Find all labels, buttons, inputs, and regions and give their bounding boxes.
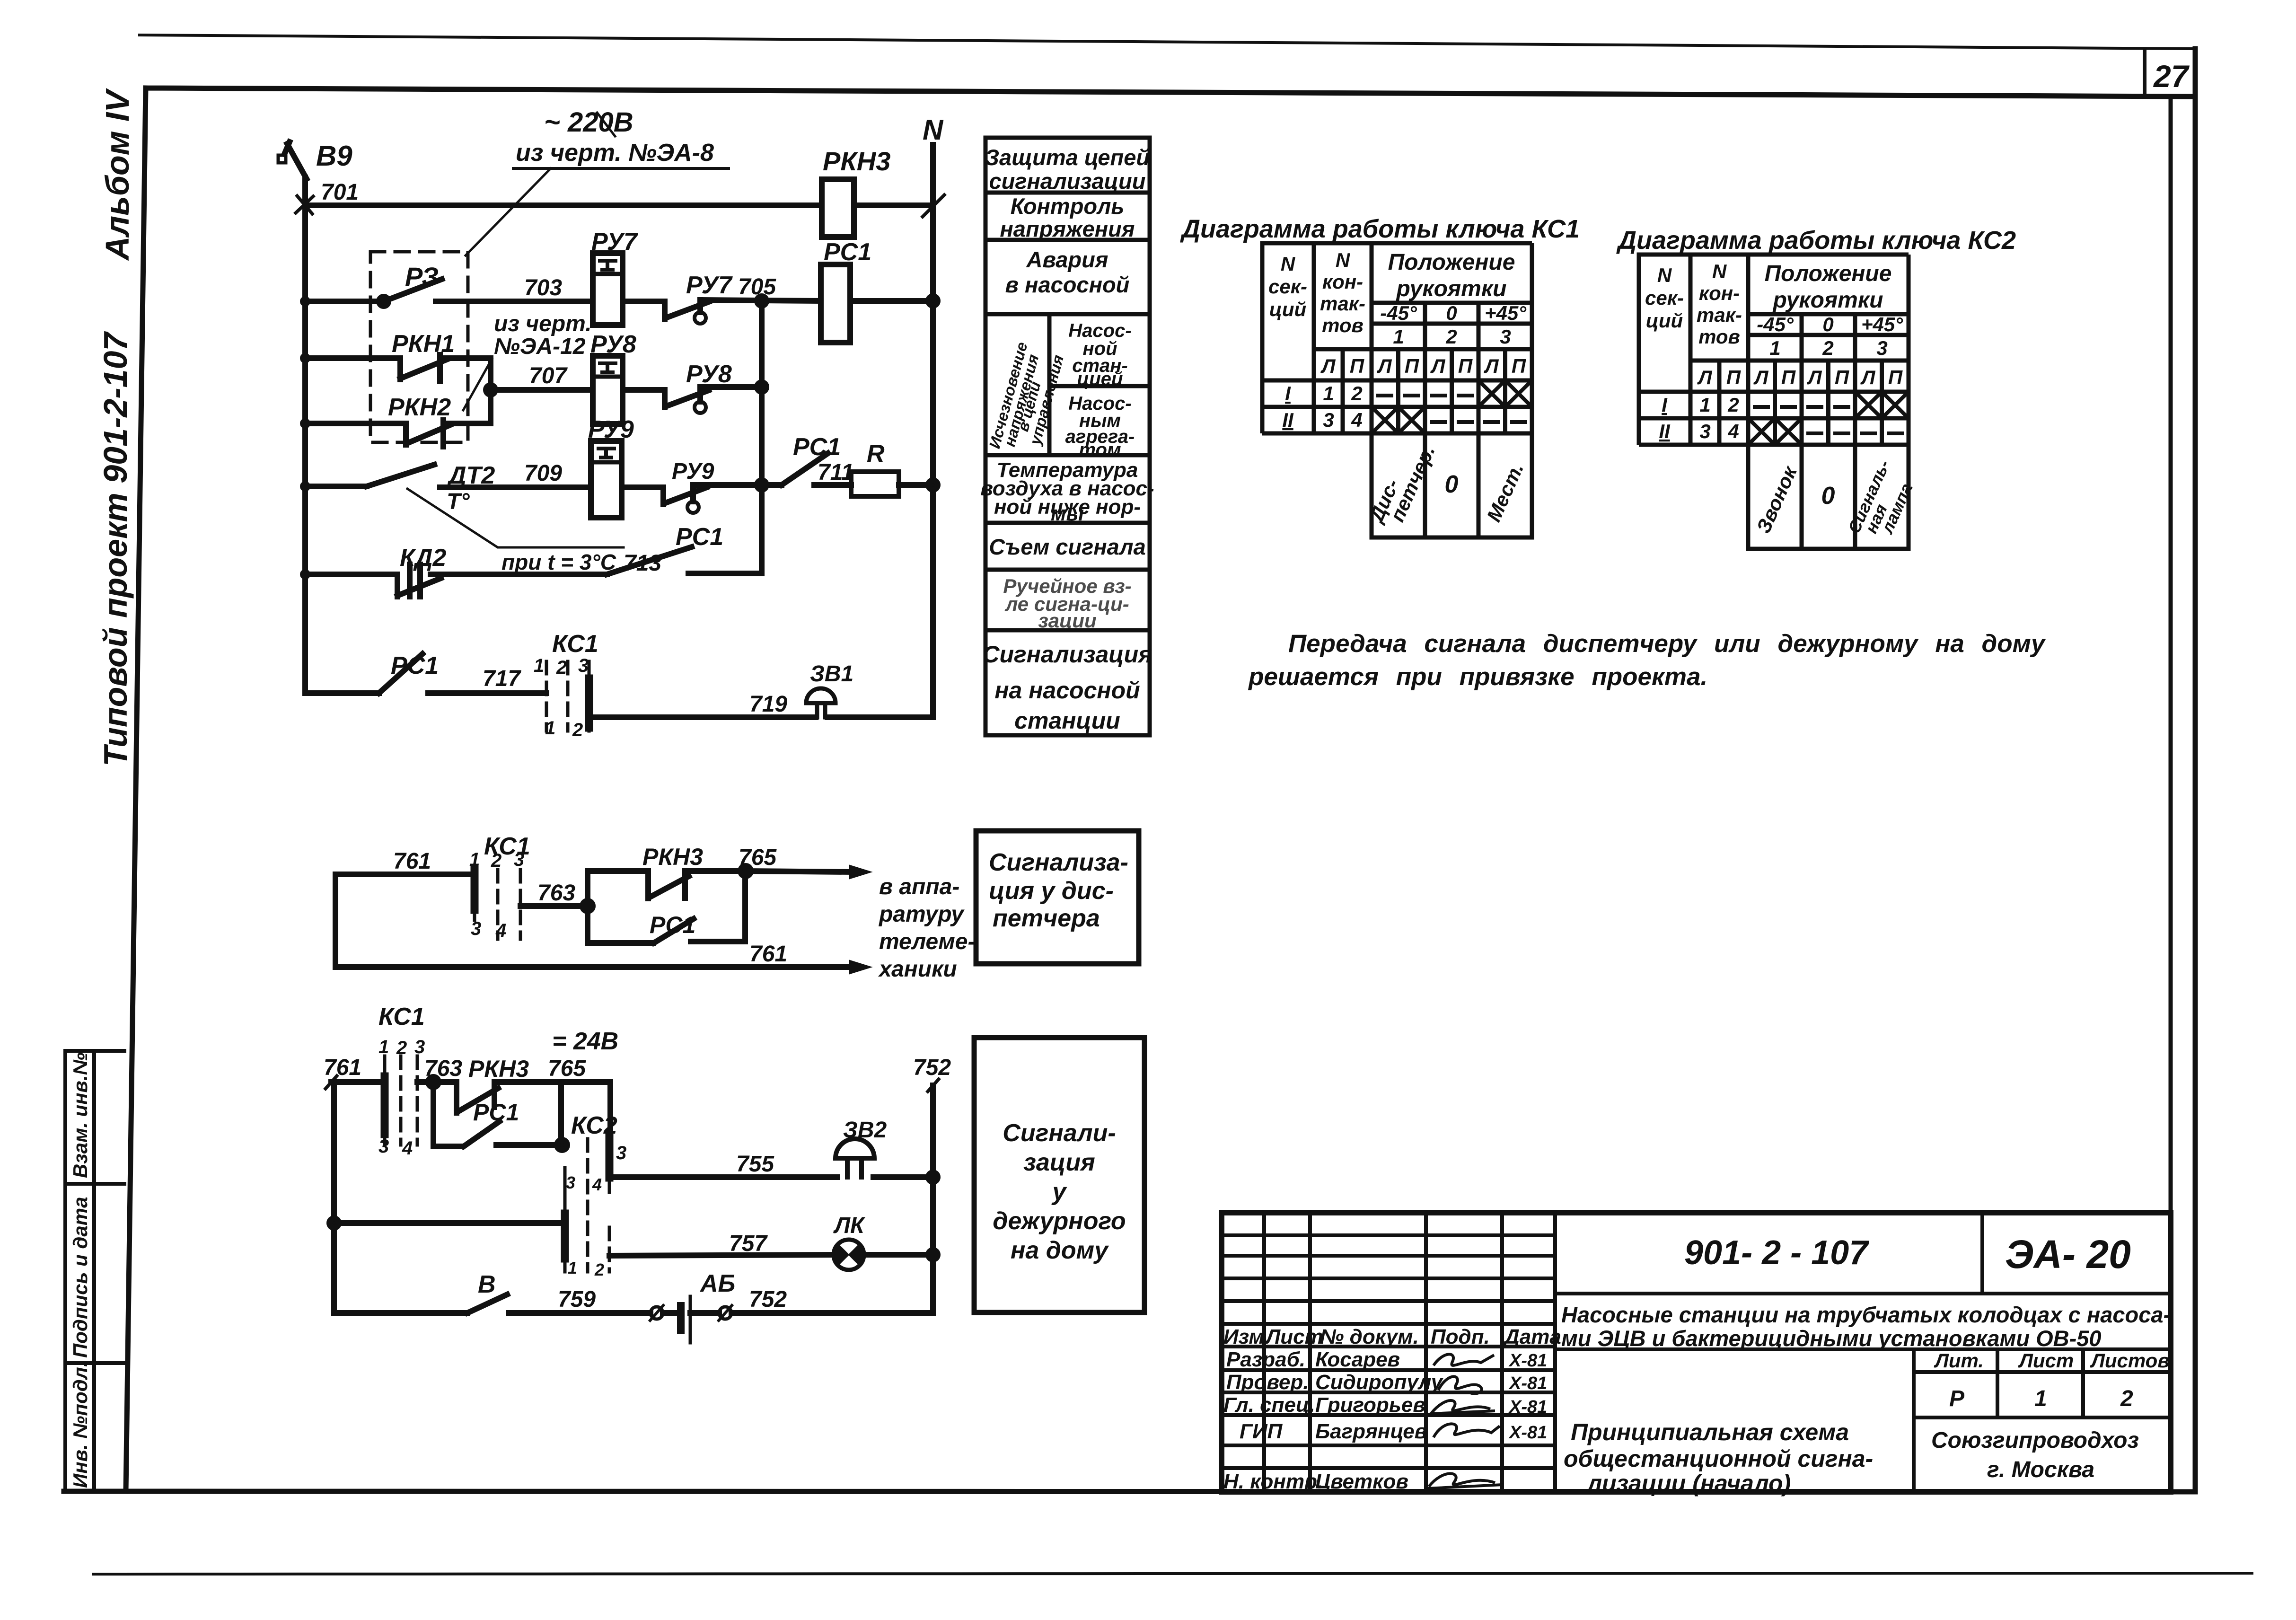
svg-text:Л: Л (1377, 355, 1392, 377)
box Температура воздуха (980, 458, 1154, 525)
svg-text:Х-81: Х-81 (1508, 1351, 1547, 1371)
svg-text:телеме-: телеме- (879, 929, 975, 954)
contact RS1 (NO) (588, 940, 653, 946)
svg-text:на насосной: на насосной (994, 677, 1140, 704)
svg-text:Т°: Т° (447, 489, 470, 514)
wire 765 with arrow (740, 866, 751, 876)
switch B9 (278, 155, 286, 163)
svg-text:Защита цепей: Защита цепей (985, 145, 1150, 170)
svg-text:752: 752 (913, 1055, 951, 1080)
wire 763 (417, 1079, 433, 1085)
table KS2 grid (1639, 255, 1909, 445)
svg-text:№ЭА-12: №ЭА-12 (494, 334, 586, 359)
svg-text:РС1: РС1 (473, 1099, 519, 1126)
svg-text:ратуру: ратуру (878, 902, 965, 927)
label v apparaturu telemehaniki (878, 874, 975, 982)
svg-text:решается при привязке проекта.: решается при привязке проекта. (1248, 663, 1707, 691)
terminal 761 slash (325, 1076, 337, 1089)
svg-text:N: N (1712, 260, 1727, 282)
left margin stamp strip (65, 1051, 124, 1491)
svg-text:3: 3 (471, 918, 481, 939)
header Polozhenie rukoyatki (1765, 261, 1892, 313)
svg-text:Н. контр.: Н. контр. (1223, 1470, 1323, 1493)
svg-text:3: 3 (566, 1173, 575, 1192)
row I marks (1376, 394, 1393, 397)
svg-text:ция у дис-: ция у дис- (989, 877, 1114, 905)
svg-text:ЭА- 20: ЭА- 20 (2005, 1232, 2131, 1277)
svg-text:= 24В: = 24В (552, 1028, 618, 1055)
contact RU9 (622, 484, 663, 490)
svg-text:при t = 3°С: при t = 3°С (501, 550, 616, 574)
lit/list/listov (1914, 1349, 2171, 1417)
wire 755 (609, 1174, 837, 1180)
svg-text:Авария: Авария (1026, 247, 1108, 272)
svg-text:Цветков: Цветков (1315, 1470, 1408, 1493)
svg-text:2: 2 (1445, 326, 1457, 348)
svg-text:П: П (1458, 355, 1473, 377)
svg-text:РКН1: РКН1 (392, 330, 455, 358)
wire 707 (491, 387, 593, 393)
svg-text:РКН2: РКН2 (388, 394, 451, 421)
box Signalizatsiya u dezhurnogo (974, 1038, 1144, 1312)
svg-text:Л: Л (1807, 366, 1822, 388)
svg-text:4: 4 (1727, 420, 1739, 442)
switch V (334, 1310, 467, 1316)
svg-text:761: 761 (324, 1055, 361, 1080)
svg-text:755: 755 (736, 1152, 774, 1177)
svg-text:Дата: Дата (1503, 1325, 1561, 1348)
svg-text:1: 1 (545, 718, 555, 739)
svg-text:Х-81: Х-81 (1508, 1397, 1547, 1417)
svg-text:Подпись и дата: Подпись и дата (69, 1197, 91, 1358)
box Signalizatsiya u dispetchera (976, 831, 1139, 964)
svg-text:так-: так- (1697, 304, 1742, 326)
svg-text:2: 2 (594, 1260, 604, 1279)
row I marks (1753, 405, 1770, 409)
svg-text:РУ9: РУ9 (672, 459, 714, 484)
svg-text:709: 709 (524, 461, 562, 486)
svg-text:-45°: -45° (1757, 313, 1794, 335)
svg-text:РС1: РС1 (676, 523, 723, 551)
svg-text:4: 4 (1351, 409, 1362, 431)
svg-text:РУ7: РУ7 (686, 272, 733, 299)
contact RU7 (623, 299, 665, 304)
wire 705 (700, 300, 821, 301)
svg-text:РКН3: РКН3 (468, 1056, 529, 1082)
lit list listov (1934, 1349, 2170, 1372)
header Polozhenie rukoyatki (1388, 250, 1515, 301)
battery AB (663, 1310, 677, 1316)
wire 761 (331, 1079, 381, 1085)
svg-text:3: 3 (578, 655, 589, 676)
signatures (1427, 1354, 1503, 1488)
svg-text:кон-: кон- (1322, 271, 1363, 293)
svg-text:сигнализации: сигнализации (989, 168, 1146, 194)
box Насосным агрегатом (1065, 393, 1135, 460)
svg-text:719: 719 (749, 692, 787, 717)
svg-text:Разраб.: Разраб. (1226, 1348, 1305, 1371)
svg-text:Л: Л (1753, 366, 1769, 388)
svg-text:ЛК: ЛК (833, 1213, 866, 1238)
page number box (2143, 49, 2146, 96)
svg-text:ЗВ1: ЗВ1 (810, 661, 853, 687)
svg-text:3: 3 (414, 1037, 425, 1057)
svg-text:Взам. инв.№: Взам. инв.№ (69, 1052, 91, 1178)
svg-text:П: П (1781, 366, 1796, 388)
svg-text:Х-81: Х-81 (1508, 1423, 1547, 1443)
svg-text:сек-: сек- (1268, 275, 1307, 298)
svg-text:3: 3 (1876, 337, 1887, 359)
svg-text:1: 1 (1699, 394, 1710, 416)
svg-text:Контроль: Контроль (1011, 194, 1125, 219)
wire 761 top (335, 874, 471, 967)
N line crossing slash (923, 195, 944, 217)
wire 705 to N (850, 298, 933, 304)
svg-text:г. Москва: г. Москва (1987, 1457, 2094, 1482)
category boxes outline (985, 138, 1150, 735)
svg-text:2: 2 (572, 720, 583, 740)
svg-text:707: 707 (529, 363, 568, 388)
wire 759 (509, 1310, 651, 1316)
left bus wire (302, 177, 308, 693)
svg-text:тов: тов (1322, 314, 1364, 336)
central vertical (1912, 1417, 1916, 1492)
relay coil RS1 (821, 264, 850, 343)
svg-text:Передача сигнала диспетчеру ил: Передача сигнала диспетчеру или дежурном… (1288, 630, 2046, 658)
wire 711 row (693, 482, 782, 488)
svg-text:+45°: +45° (1485, 302, 1527, 324)
svg-text:2: 2 (556, 657, 567, 678)
svg-text:лизации (начало): лизации (начало) (1586, 1470, 1791, 1497)
svg-text:РС1: РС1 (793, 433, 841, 461)
contact RS1 (433, 1144, 462, 1149)
svg-text:0: 0 (1822, 313, 1833, 335)
svg-text:761: 761 (393, 849, 431, 874)
svg-text:N: N (923, 114, 944, 146)
svg-text:Диаграмма работы ключа КС1: Диаграмма работы ключа КС1 (1180, 215, 1580, 243)
parallel block RKN3/RS1 (585, 871, 590, 943)
svg-text:Альбом IV: Альбом IV (99, 88, 136, 261)
svg-text:из черт.: из черт. (494, 311, 592, 336)
svg-text:в аппа-: в аппа- (879, 874, 959, 899)
parallel block RKN3/RS1 (bottom) (431, 1082, 436, 1146)
svg-text:II: II (1282, 409, 1294, 431)
svg-text:так-: так- (1320, 292, 1365, 315)
N line (930, 145, 936, 717)
svg-text:зации: зации (1038, 609, 1096, 632)
svg-text:Л: Л (1320, 355, 1336, 377)
svg-text:4: 4 (495, 920, 506, 941)
svg-text:цией: цией (1077, 369, 1123, 389)
svg-text:4: 4 (592, 1175, 602, 1194)
leader to dashed box (466, 168, 551, 255)
svg-text:2: 2 (2120, 1386, 2133, 1411)
svg-text:759: 759 (558, 1287, 596, 1312)
svg-text:П: П (1512, 355, 1526, 377)
contact RKN3 (NC) (588, 871, 648, 898)
svg-text:РКН3: РКН3 (642, 844, 703, 870)
svg-text:станции: станции (1014, 707, 1120, 734)
svg-text:R: R (867, 440, 885, 467)
svg-text:-45°: -45° (1380, 302, 1417, 324)
svg-text:ций: ций (1269, 298, 1306, 320)
relay coil RU8 (593, 356, 623, 424)
contact RS1 (711) (782, 453, 828, 485)
svg-text:тов: тов (1698, 326, 1740, 348)
svg-text:Лист: Лист (2018, 1349, 2074, 1372)
svg-text:ЗВ2: ЗВ2 (843, 1118, 887, 1143)
bell ZV1 (806, 688, 836, 703)
svg-text:дежурного: дежурного (993, 1207, 1126, 1235)
svg-text:1: 1 (568, 1258, 577, 1277)
resistor R (851, 472, 899, 496)
svg-text:2: 2 (1727, 394, 1739, 416)
bottom cells (1364, 442, 1528, 527)
junction vertical (488, 358, 493, 423)
svg-text:рукоятки: рукоятки (1772, 288, 1883, 313)
right vertical 752 (930, 1085, 936, 1313)
svg-text:0: 0 (1446, 302, 1457, 324)
wire 757 (609, 1255, 834, 1256)
svg-text:~ 220В: ~ 220В (544, 107, 633, 138)
contact RS1 (713) (607, 547, 692, 574)
relay coil RKN3 (822, 179, 854, 237)
rotated text Исчезновение напряжения в цепи управления (985, 340, 1067, 450)
svg-text:761: 761 (749, 942, 787, 967)
svg-text:Сигнализация: Сигнализация (982, 641, 1152, 668)
leader pri t (407, 489, 624, 547)
svg-text:765: 765 (739, 845, 777, 870)
svg-text:765: 765 (548, 1056, 586, 1081)
svg-text:1: 1 (378, 1037, 389, 1057)
svg-text:зация: зация (1023, 1149, 1095, 1176)
svg-text:РУ7: РУ7 (591, 228, 638, 255)
svg-text:763: 763 (424, 1056, 462, 1081)
box Насосной станцией (1068, 320, 1131, 389)
svg-text:4: 4 (402, 1138, 413, 1159)
svg-text:Изм.: Изм. (1223, 1325, 1270, 1348)
svg-text:763: 763 (537, 880, 575, 906)
svg-text:у: у (1051, 1178, 1068, 1206)
svg-text:0: 0 (1821, 482, 1835, 510)
relay coil RU9 (591, 441, 622, 518)
svg-text:Сигнали-: Сигнали- (1003, 1119, 1116, 1147)
svg-text:Положение: Положение (1388, 250, 1515, 275)
header cells right part (1555, 1213, 2171, 1349)
svg-text:3: 3 (514, 849, 524, 870)
wire 703 (436, 299, 593, 304)
node X mark at 701 (296, 196, 313, 214)
svg-text:П: П (1888, 366, 1903, 388)
svg-text:на дому: на дому (1011, 1237, 1109, 1264)
svg-text:П: П (1835, 366, 1849, 388)
svg-text:КС1: КС1 (378, 1003, 425, 1030)
relay coil RU7 (593, 253, 623, 325)
svg-text:3: 3 (616, 1143, 626, 1163)
svg-text:КД2: КД2 (400, 544, 447, 572)
svg-text:N: N (1281, 253, 1296, 275)
wire 701 to N (854, 202, 933, 208)
svg-text:том: том (1079, 440, 1121, 460)
svg-text:Лит.: Лит. (1934, 1349, 1984, 1372)
svg-text:3: 3 (378, 1136, 389, 1157)
row II marks (1372, 407, 1399, 433)
svg-text:II: II (1659, 420, 1671, 442)
collector vertical (759, 301, 765, 573)
table KS1 grid (1262, 243, 1532, 433)
svg-text:Типовой проект 901-2-107: Типовой проект 901-2-107 (97, 331, 134, 766)
svg-text:мы: мы (1051, 502, 1084, 525)
svg-text:РУ8: РУ8 (590, 331, 636, 358)
svg-text:Диаграмма работы ключа КС2: Диаграмма работы ключа КС2 (1616, 226, 2016, 255)
insulator left (651, 1307, 663, 1319)
svg-text:петчера: петчера (993, 905, 1100, 932)
svg-text:1: 1 (1769, 337, 1780, 359)
middle wire to KS2 line1 (334, 1220, 565, 1226)
svg-text:Л: Л (1697, 366, 1713, 388)
svg-text:3: 3 (1500, 326, 1511, 348)
svg-text:ханики: ханики (878, 957, 957, 982)
wire 701 (305, 202, 822, 208)
row II marks (1748, 418, 1775, 445)
svg-text:703: 703 (524, 275, 562, 300)
svg-text:Союзгипроводхоз: Союзгипроводхоз (1931, 1428, 2139, 1453)
svg-text:+45°: +45° (1861, 313, 1903, 335)
insulator right (719, 1307, 731, 1319)
svg-text:3: 3 (1323, 409, 1334, 431)
svg-text:Положение: Положение (1765, 261, 1892, 286)
svg-text:701: 701 (321, 180, 359, 205)
contact DT2 (305, 484, 367, 489)
bell ZV2 (836, 1139, 874, 1158)
svg-text:Сидиропулу: Сидиропулу (1315, 1371, 1444, 1394)
svg-text:общестанционной сигна-: общестанционной сигна- (1564, 1445, 1873, 1472)
svg-text:Инв. №подл.: Инв. №подл. (69, 1362, 91, 1488)
svg-text:Х-81: Х-81 (1508, 1373, 1547, 1393)
svg-text:АБ: АБ (699, 1270, 735, 1297)
svg-text:РС1: РС1 (650, 912, 695, 938)
svg-text:КС1: КС1 (552, 630, 598, 658)
svg-text:Подп.: Подп. (1431, 1325, 1490, 1348)
svg-text:П: П (1350, 355, 1364, 377)
svg-text:901- 2 - 107: 901- 2 - 107 (1684, 1234, 1869, 1272)
bus junction dots (300, 296, 310, 580)
svg-text:Провер.: Провер. (1226, 1371, 1309, 1394)
svg-text:Насосные станции на трубчатых: Насосные станции на трубчатых колодцах с… (1561, 1302, 2171, 1327)
svg-text:N: N (1657, 264, 1672, 286)
wire 765 (561, 1079, 610, 1085)
contact RKN3 (433, 1082, 457, 1113)
svg-text:I: I (1662, 394, 1668, 416)
svg-text:РУ9: РУ9 (588, 416, 634, 443)
svg-text:рукоятки: рукоятки (1395, 276, 1506, 301)
svg-text:717: 717 (483, 666, 521, 691)
svg-text:N: N (1336, 249, 1351, 271)
svg-text:Л: Л (1430, 355, 1446, 377)
sheet top edge line (140, 35, 2195, 49)
svg-text:Принципиальная схема: Принципиальная схема (1571, 1419, 1849, 1445)
svg-text:2: 2 (1822, 337, 1833, 359)
svg-text:сек-: сек- (1645, 287, 1684, 309)
svg-text:27: 27 (2153, 59, 2190, 94)
lamp LK (834, 1240, 864, 1270)
svg-text:П: П (1405, 355, 1419, 377)
dashed group box (370, 252, 468, 442)
wire RU8 out (700, 384, 762, 390)
svg-text:Косарев: Косарев (1315, 1348, 1400, 1371)
contact RU8 (623, 387, 665, 393)
svg-text:РС1: РС1 (824, 238, 871, 266)
svg-text:1: 1 (534, 655, 544, 676)
svg-text:В9: В9 (316, 140, 352, 172)
svg-text:В: В (478, 1271, 496, 1298)
wire 719 (589, 714, 816, 720)
svg-text:напряжения: напряжения (1000, 216, 1135, 241)
box Ручное включение сигнализации (smudged) (1003, 575, 1131, 632)
svg-text:№ докум.: № докум. (1320, 1325, 1419, 1348)
svg-text:Григорьев: Григорьев (1315, 1393, 1425, 1417)
bottom cells (1752, 457, 1916, 537)
svg-text:2: 2 (1351, 382, 1362, 405)
svg-text:П: П (1726, 366, 1741, 388)
svg-text:кон-: кон- (1699, 282, 1740, 304)
svg-text:1: 1 (2034, 1386, 2047, 1411)
svg-text:ций: ций (1646, 309, 1683, 332)
svg-text:0: 0 (1445, 471, 1459, 498)
svg-text:757: 757 (729, 1231, 768, 1256)
title block outer (1222, 1213, 2171, 1492)
svg-text:Гл. спец.: Гл. спец. (1223, 1393, 1315, 1417)
svg-text:752: 752 (749, 1287, 787, 1312)
svg-text:РУ8: РУ8 (686, 361, 732, 388)
svg-text:Сигнализа-: Сигнализа- (989, 849, 1128, 876)
sheet bottom edge line (93, 1573, 2252, 1574)
wire 761 bottom with arrow (335, 964, 852, 970)
svg-text:Л: Л (1860, 366, 1876, 388)
title block left table verticals (1264, 1213, 1555, 1492)
left vertical (331, 1082, 337, 1313)
svg-text:Лист: Лист (1265, 1325, 1323, 1348)
wire 763 (520, 903, 588, 909)
frame inner right line (2169, 97, 2173, 1492)
svg-text:1: 1 (1393, 326, 1404, 348)
wire 709 (440, 484, 591, 490)
box Сигнализация на насосной станции (982, 641, 1152, 734)
svg-text:711: 711 (818, 460, 854, 485)
svg-text:из черт. №ЭА-8: из черт. №ЭА-8 (516, 139, 714, 167)
svg-text:ми ЭЦВ и бактерицидными устано: ми ЭЦВ и бактерицидными установками ОВ-5… (1561, 1326, 2102, 1351)
svg-text:Л: Л (1484, 355, 1499, 377)
svg-text:I: I (1285, 382, 1291, 405)
left table rows (1222, 1235, 1555, 1468)
svg-text:Багрянцев: Багрянцев (1315, 1420, 1427, 1443)
svg-text:Р: Р (1949, 1386, 1965, 1411)
svg-text:РКН3: РКН3 (823, 146, 890, 176)
svg-text:Листов: Листов (2090, 1349, 2170, 1372)
svg-text:1: 1 (1323, 382, 1334, 405)
svg-text:ГИП: ГИП (1240, 1420, 1283, 1443)
svg-text:Съем сигнала: Съем сигнала (989, 534, 1146, 559)
svg-text:2: 2 (491, 850, 501, 871)
svg-text:3: 3 (1699, 420, 1710, 442)
split box inner lines (1049, 314, 1150, 455)
svg-text:в насосной: в насосной (1005, 272, 1130, 297)
